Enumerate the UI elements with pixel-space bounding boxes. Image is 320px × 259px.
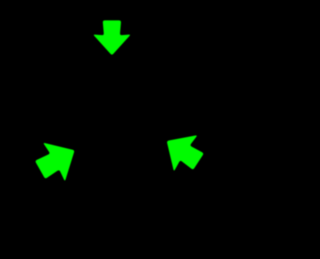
arrow-left green arrow	[36, 143, 75, 180]
arrow-right green arrow	[167, 135, 203, 170]
black game background with three green arrows	[0, 0, 237, 259]
arrow-down green arrow	[94, 20, 130, 54]
